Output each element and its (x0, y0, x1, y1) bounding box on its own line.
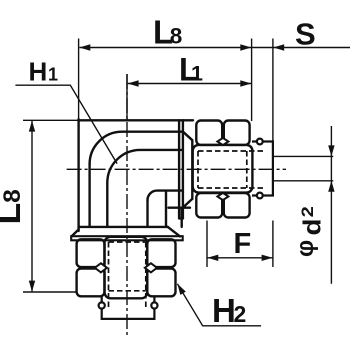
arrowhead left L8 down (29, 281, 35, 292)
nut H bottom-left facet (196, 193, 222, 217)
cone chamfer bottom (183, 199, 192, 208)
bottom flange disk band (71, 236, 183, 240)
svg-text:2: 2 (234, 301, 247, 327)
nut V upper-left facet (77, 239, 105, 267)
arrowhead H2 leader (177, 284, 185, 295)
threaded stub (vertical arm) (102, 297, 155, 319)
nut V chamfer diamond right (145, 263, 157, 272)
hidden bore end left (horizontal arm) (197, 151, 199, 188)
svg-text:H: H (212, 292, 236, 329)
tube inner right edge (146, 200, 148, 227)
flange disk bottom cap (179, 217, 183, 219)
leader line H1 (15, 85, 117, 163)
hidden thread line left (vertical arm) (108, 242, 110, 309)
inner bend arc and tube bottom edge (148, 191, 182, 201)
dimension line phi d2 (vertical) (330, 126, 332, 284)
nut V middle band (105, 237, 148, 298)
nut H top-right facet (224, 121, 250, 145)
inner corner step (166, 192, 190, 227)
centerline horizontal arm (67, 168, 286, 170)
svg-text:1: 1 (48, 65, 58, 85)
dimension line F (207, 257, 272, 259)
stub pin circle right (151, 302, 157, 308)
extension line, stub end face (272, 39, 274, 142)
cone chamfer top (183, 132, 192, 141)
arrowhead phi d2 up (328, 181, 334, 192)
arrowhead F right (262, 255, 273, 261)
stub pin circle left (99, 302, 105, 308)
elbow body top silhouette edge (79, 119, 193, 121)
nut V lower-right facet (147, 269, 175, 297)
hidden bore end bottom (vertical arm) (109, 290, 146, 292)
svg-text:d: d (299, 219, 327, 236)
dimension line L8 (top) (80, 47, 252, 49)
svg-text:8: 8 (170, 24, 183, 49)
arrowhead phi d2 down (328, 145, 334, 156)
extension line, body left edge extended up (78, 39, 80, 121)
dimension line L8 (left, vertical) (31, 121, 33, 291)
bottom flange top edge (79, 226, 168, 228)
label phi d2 (rotated) (292, 206, 326, 257)
extension line, phi d2 lower (273, 180, 333, 182)
svg-text:L: L (0, 203, 28, 225)
nut H bottom-right facet (224, 193, 250, 217)
extension line, left L8 top (23, 119, 79, 121)
svg-text:1: 1 (191, 62, 203, 86)
hidden thread line right (vertical arm) (145, 242, 147, 309)
cone base edge (191, 140, 193, 199)
arrowhead L1 right (240, 80, 251, 86)
nut H chamfer diamond bottom (217, 193, 228, 200)
extension line, nut right face (251, 39, 253, 122)
dimension line S with tail (252, 47, 350, 49)
bottom flange chamfer right (168, 227, 180, 237)
flange disk right line (horizontal arm) (182, 120, 184, 218)
shoulder left edge (106, 183, 108, 227)
outer bend arc and tube top edge (90, 132, 182, 165)
bottom flange chamfer left (72, 230, 79, 237)
svg-text:F: F (234, 228, 252, 260)
stub pin circle bottom (257, 193, 263, 199)
hidden bore end top (vertical arm) (109, 241, 146, 243)
arrowhead left L8 up (29, 121, 35, 132)
arrowhead L1 left (128, 80, 139, 86)
arrowhead S (273, 44, 284, 50)
leader line H2 (177, 284, 261, 326)
dimension line L1 (128, 83, 252, 85)
shoulder bend arc and shoulder line (107, 150, 181, 183)
extension line, phi d2 upper (273, 155, 333, 157)
svg-text:8: 8 (0, 189, 26, 203)
arrowhead L8 right (240, 44, 251, 50)
nut V chamfer diamond left (95, 263, 107, 272)
svg-text:S: S (295, 17, 316, 52)
elbow body left silhouette edge (77, 119, 79, 231)
nut H chamfer diamond top (217, 138, 228, 145)
nut V upper-right facet (147, 239, 175, 267)
flange disk left line (horizontal arm) (178, 120, 180, 218)
centerline vertical arm (126, 74, 128, 337)
nut V lower-left facet (77, 269, 105, 297)
threaded stub (horizontal arm) (252, 142, 273, 196)
svg-text:φ: φ (292, 240, 319, 257)
tube outer left edge (88, 164, 90, 227)
svg-text:2: 2 (298, 206, 317, 217)
nut H middle band (193, 145, 253, 193)
svg-text:H: H (29, 57, 48, 87)
hidden thread line lower (horizontal arm) (198, 187, 265, 189)
extension line, F right (272, 221, 274, 268)
arrowhead F left (207, 255, 218, 261)
extension line L1 left (centerline extended) (126, 74, 128, 120)
arrowhead L8 left (79, 44, 90, 50)
label L8 (left, rotated) (0, 189, 28, 224)
hidden bore end right (horizontal arm) (246, 151, 248, 188)
hidden thread line upper (horizontal arm) (198, 150, 265, 152)
extension line, left L8 bottom (23, 291, 77, 293)
extension line, F left (206, 221, 208, 268)
stub pin circle top (257, 139, 263, 145)
nut H top-left facet (196, 121, 222, 145)
